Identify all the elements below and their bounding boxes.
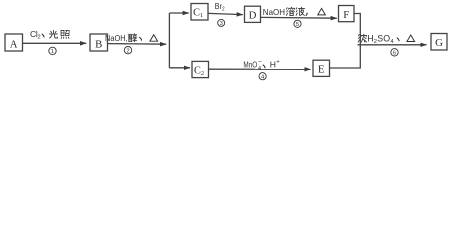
wire arrow2 B to branch: [108, 43, 166, 46]
box B: [90, 34, 108, 51]
svg-text:5: 5: [296, 22, 299, 28]
reagent nong H2SO4 delta over arrow6: [358, 34, 414, 46]
wire arrow1 A to B: [23, 42, 86, 44]
svg-text:NaOH,: NaOH,: [105, 33, 128, 43]
svg-text:F: F: [343, 9, 349, 21]
box F: [339, 6, 355, 22]
svg-text:−: −: [258, 59, 262, 66]
box D: [245, 6, 261, 22]
box A: [5, 34, 23, 51]
box C1: [191, 4, 208, 21]
wire F stub down: [354, 14, 360, 45]
box E: [313, 60, 330, 76]
circled 2: [124, 47, 131, 55]
svg-text:4: 4: [258, 66, 261, 72]
svg-text:D: D: [249, 10, 257, 22]
svg-text:NaOH: NaOH: [263, 7, 285, 17]
reagent MnO4 H over arrow4: [243, 59, 280, 72]
svg-text:+: +: [276, 60, 280, 66]
box C2: [192, 61, 209, 77]
circled 6: [391, 49, 398, 57]
reagent NaOH rong ye delta over arrow5: [263, 7, 326, 17]
wire arrow5 D to F: [261, 16, 337, 19]
wire E stub up: [330, 45, 361, 68]
svg-text:3: 3: [220, 21, 223, 27]
circled 3: [218, 19, 225, 27]
svg-text:MnO: MnO: [243, 60, 257, 70]
svg-text:A: A: [10, 38, 18, 50]
svg-text:G: G: [435, 37, 443, 49]
reagent Cl2 guang zhao over arrow1: [30, 29, 69, 41]
svg-text:B: B: [95, 38, 102, 50]
wire branch to C2: [169, 67, 190, 69]
wire arrow6 to G: [358, 44, 427, 46]
svg-text:H: H: [270, 60, 276, 70]
circled 4: [259, 73, 266, 81]
svg-text:1: 1: [51, 49, 54, 55]
circled 1: [49, 47, 56, 55]
wire branch to C1: [169, 12, 188, 14]
svg-text:2: 2: [126, 48, 129, 54]
box G: [431, 34, 447, 51]
circled 5: [294, 20, 301, 28]
wire arrow4 C2 to E: [209, 68, 311, 70]
svg-text:6: 6: [393, 51, 396, 57]
svg-text:H2SO4: H2SO4: [367, 34, 394, 46]
reagent NaOH chun delta over arrow2: [105, 33, 158, 43]
svg-text:E: E: [318, 63, 325, 75]
wire arrow3 C1 to D: [208, 13, 242, 14]
wire branch vertical: [168, 13, 170, 68]
